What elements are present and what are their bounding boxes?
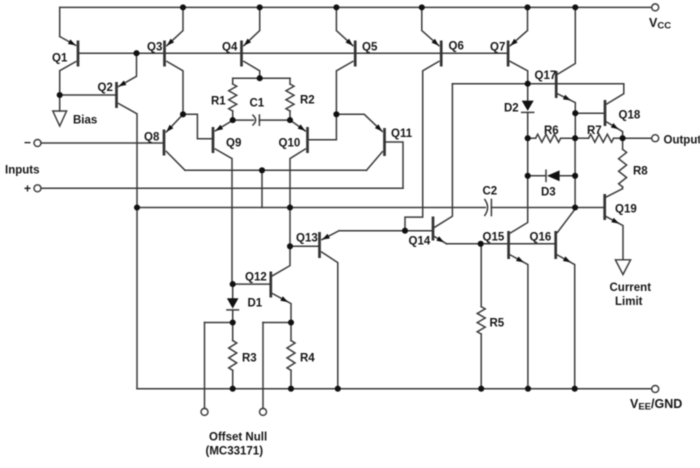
svg-text:Inputs: Inputs: [5, 165, 40, 177]
svg-text:Bias: Bias: [73, 115, 97, 127]
svg-text:D1: D1: [248, 298, 263, 310]
svg-text:Q17: Q17: [535, 70, 557, 82]
svg-text:Q19: Q19: [615, 204, 637, 216]
svg-text:+: +: [24, 182, 31, 196]
svg-text:Q12: Q12: [245, 272, 267, 284]
svg-text:Q9: Q9: [226, 138, 241, 150]
svg-text:R1: R1: [211, 96, 226, 108]
svg-text:Q1: Q1: [52, 53, 68, 65]
svg-text:R4: R4: [300, 353, 315, 365]
svg-text:R2: R2: [300, 95, 315, 107]
svg-text:VEE/GND: VEE/GND: [630, 397, 682, 413]
svg-text:Q8: Q8: [144, 132, 160, 144]
svg-text:Limit: Limit: [615, 296, 643, 308]
svg-text:Q3: Q3: [147, 42, 162, 54]
svg-text:R7: R7: [587, 125, 602, 137]
svg-text:Output: Output: [664, 135, 700, 147]
svg-text:Q18: Q18: [619, 110, 641, 122]
svg-text:D3: D3: [541, 187, 556, 199]
svg-text:−: −: [24, 136, 31, 150]
svg-text:Offset Null: Offset Null: [209, 432, 267, 444]
svg-text:Q5: Q5: [362, 42, 378, 54]
svg-text:Q15: Q15: [483, 232, 505, 244]
svg-text:Q7: Q7: [490, 42, 505, 54]
svg-text:C1: C1: [250, 98, 265, 110]
svg-text:Q14: Q14: [409, 236, 431, 248]
svg-text:Q13: Q13: [296, 233, 318, 245]
svg-text:R6: R6: [544, 125, 559, 137]
svg-text:D2: D2: [504, 103, 519, 115]
svg-text:Q6: Q6: [449, 41, 464, 53]
svg-text:C2: C2: [483, 186, 498, 198]
svg-text:Q16: Q16: [530, 232, 552, 244]
svg-text:Q2: Q2: [98, 82, 113, 94]
svg-text:R3: R3: [242, 353, 257, 365]
svg-text:Q10: Q10: [279, 138, 301, 150]
svg-text:Current: Current: [610, 282, 652, 294]
svg-text:R5: R5: [490, 318, 505, 330]
svg-text:R8: R8: [633, 166, 648, 178]
svg-text:(MC33171): (MC33171): [206, 446, 264, 458]
svg-text:Q4: Q4: [222, 42, 238, 54]
svg-text:Q11: Q11: [391, 128, 413, 140]
